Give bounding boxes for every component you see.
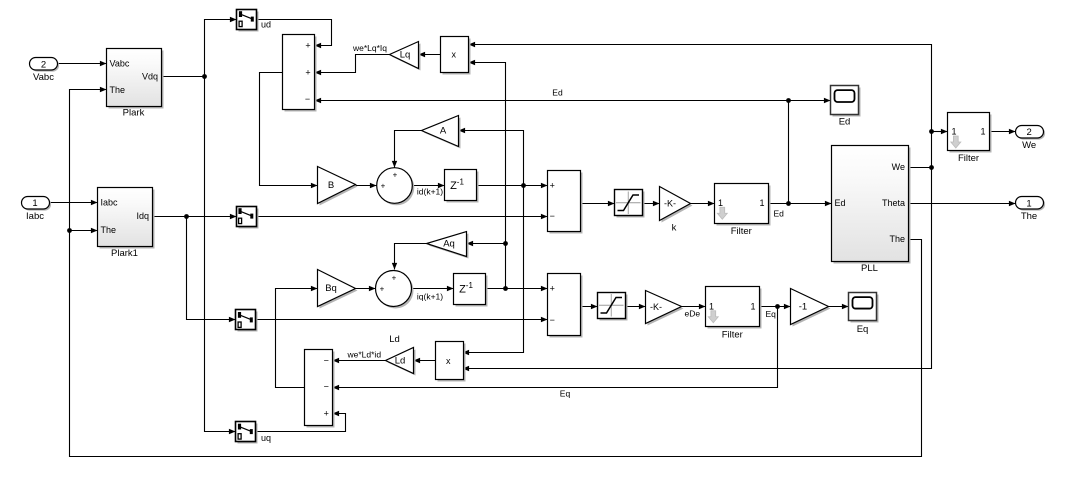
svg-text:Idq: Idq <box>136 211 149 221</box>
svg-text:Filter: Filter <box>958 153 979 164</box>
svg-text:Ed: Ed <box>552 88 563 98</box>
svg-text:−: − <box>324 382 329 392</box>
svg-text:iq(k+1): iq(k+1) <box>417 292 443 302</box>
svg-text:1: 1 <box>718 198 723 208</box>
svg-text:Plark1: Plark1 <box>111 248 138 259</box>
svg-text:Ed: Ed <box>774 209 785 219</box>
svg-text:Eq: Eq <box>766 309 777 319</box>
svg-text:x: x <box>452 50 457 60</box>
svg-text:uq: uq <box>261 433 271 443</box>
svg-text:Filter: Filter <box>722 330 743 341</box>
svg-text:+: + <box>393 170 398 179</box>
svg-text:+: + <box>381 182 386 191</box>
svg-text:Plark: Plark <box>123 108 145 119</box>
svg-text:The: The <box>1021 211 1037 222</box>
svg-text:We: We <box>892 162 905 172</box>
svg-text:1: 1 <box>1026 199 1031 210</box>
svg-text:+: + <box>550 180 555 190</box>
svg-text:Aq: Aq <box>443 239 455 250</box>
svg-text:PLL: PLL <box>861 263 878 274</box>
svg-text:Vabc: Vabc <box>33 72 54 83</box>
svg-text:Bq: Bq <box>325 283 337 294</box>
svg-text:Filter: Filter <box>731 226 752 237</box>
svg-text:Vabc: Vabc <box>110 59 130 69</box>
svg-text:+: + <box>324 409 329 419</box>
svg-text:1: 1 <box>750 301 755 311</box>
svg-text:+: + <box>392 273 397 282</box>
svg-text:id(k+1): id(k+1) <box>417 187 443 197</box>
svg-text:Eq: Eq <box>560 389 571 399</box>
svg-text:1: 1 <box>980 127 985 137</box>
svg-text:The: The <box>889 234 905 244</box>
svg-text:1: 1 <box>709 301 714 311</box>
svg-text:+: + <box>380 285 385 294</box>
svg-text:Vdq: Vdq <box>142 72 158 82</box>
svg-text:1: 1 <box>759 198 764 208</box>
svg-text:2: 2 <box>41 59 46 70</box>
svg-text:−: − <box>550 211 555 221</box>
svg-text:1: 1 <box>952 127 957 137</box>
svg-text:The: The <box>110 85 126 95</box>
svg-text:Ld: Ld <box>395 355 406 366</box>
svg-text:we*Ld*id: we*Ld*id <box>347 350 382 360</box>
svg-text:+: + <box>550 284 555 294</box>
svg-text:-K-: -K- <box>664 198 676 208</box>
svg-text:−: − <box>324 355 329 365</box>
svg-text:A: A <box>440 126 447 137</box>
svg-text:B: B <box>328 180 334 191</box>
svg-text:The: The <box>101 225 117 235</box>
svg-text:Iabc: Iabc <box>101 198 119 208</box>
svg-text:+: + <box>305 40 310 50</box>
svg-text:Eq: Eq <box>857 324 869 335</box>
svg-text:We: We <box>1022 140 1036 151</box>
svg-text:2: 2 <box>1027 127 1032 138</box>
svg-text:-K-: -K- <box>650 302 662 312</box>
svg-text:1: 1 <box>32 198 37 209</box>
svg-text:eDe: eDe <box>685 309 701 319</box>
svg-text:we*Lq*Iq: we*Lq*Iq <box>352 43 387 53</box>
svg-text:x: x <box>446 356 451 366</box>
svg-text:k: k <box>672 223 677 234</box>
svg-text:ud: ud <box>261 20 271 30</box>
svg-text:+: + <box>305 68 310 78</box>
svg-text:-1: -1 <box>799 301 807 312</box>
svg-text:Ed: Ed <box>839 117 851 128</box>
svg-text:Theta: Theta <box>882 198 905 208</box>
svg-text:Lq: Lq <box>400 50 411 61</box>
svg-text:−: − <box>305 94 310 104</box>
svg-text:Ed: Ed <box>835 198 846 208</box>
svg-text:Ld: Ld <box>389 334 400 345</box>
svg-text:Iabc: Iabc <box>26 211 44 222</box>
svg-text:−: − <box>550 315 555 325</box>
